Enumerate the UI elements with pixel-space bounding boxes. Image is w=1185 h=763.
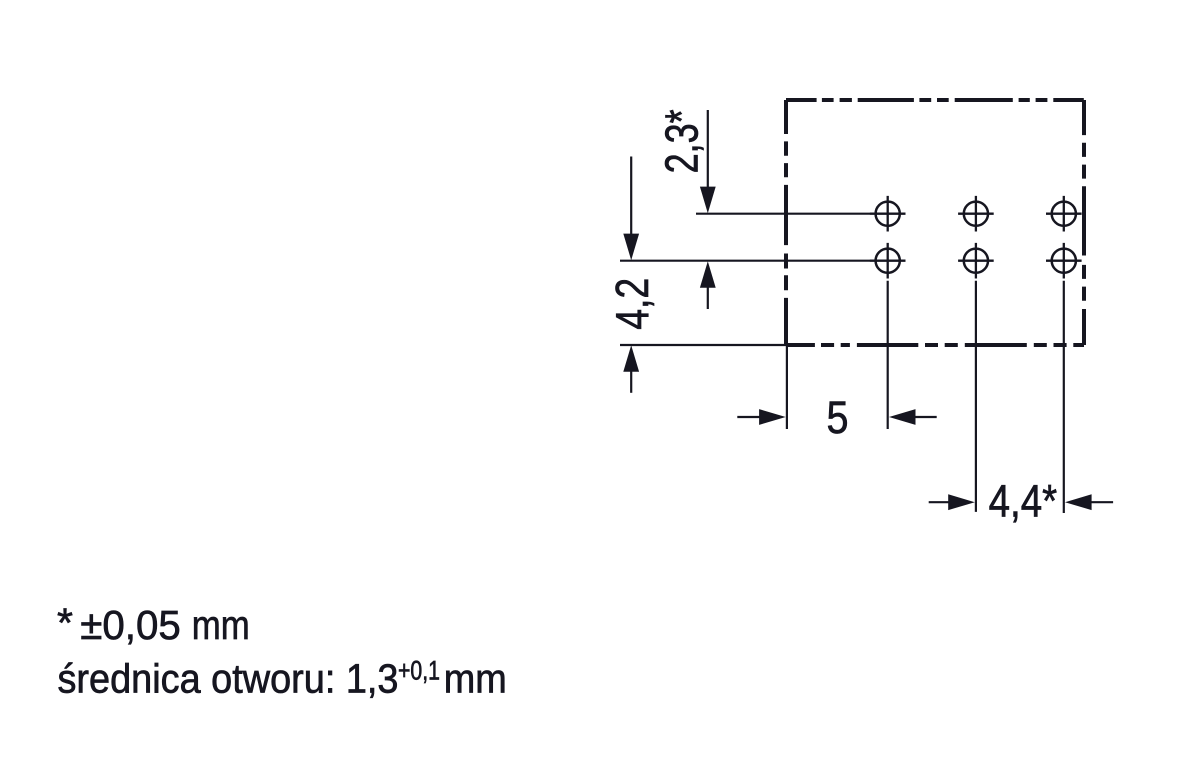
- arrowhead 5 pointing left at col1: [889, 409, 916, 425]
- centerline hole col3 downward: [1063, 281, 1065, 513]
- centerline hole col2 downward: [975, 281, 977, 512]
- housing outline right edge (phantom line): [1082, 100, 1086, 345]
- hole H5 crosshair: [958, 243, 994, 279]
- dimension 2,3* lower line with up arrow: [707, 287, 709, 309]
- extension line housing left edge downward: [786, 346, 788, 429]
- arrowhead 4,4* pointing left at col3: [1065, 494, 1092, 510]
- housing outline bottom edge (phantom line): [786, 343, 1084, 347]
- svg-text:mm: mm: [192, 602, 250, 648]
- extension line row 1 (hole row 1 centerline to the left): [696, 213, 870, 215]
- hole H6 row2 col3 circle: [1052, 249, 1076, 273]
- dimension 4,4* right tail: [1091, 501, 1114, 503]
- extension line row 2 (hole row 2 centerline to the left): [620, 260, 870, 262]
- arrowhead 4,2 pointing up at housing bottom: [623, 345, 639, 372]
- dimension 2,3* upper line with down arrow: [707, 110, 709, 188]
- arrowhead 2,3* pointing up at row2: [700, 261, 716, 288]
- hole H4 crosshair: [870, 243, 906, 279]
- dimension 4,2 lower line with up arrow: [630, 371, 632, 393]
- hole H1 crosshair: [870, 196, 906, 232]
- hole H1 row1 col1 circle: [876, 202, 900, 226]
- hole H6 crosshair: [1046, 243, 1082, 279]
- hole H3 row1 col3 circle: [1052, 202, 1076, 226]
- svg-text:±0,05: ±0,05: [80, 602, 181, 648]
- housing outline top edge (phantom line): [786, 98, 1084, 102]
- hole H4 row2 col1 circle: [876, 249, 900, 273]
- svg-text:średnica otworu: 1,3: średnica otworu: 1,3: [58, 656, 399, 702]
- arrowhead 5 pointing right at housing left: [759, 409, 786, 425]
- hole H2 row1 col2 circle: [964, 202, 988, 226]
- dimension 5 right tail: [915, 416, 937, 418]
- arrowhead 4,4* pointing right at col2: [948, 494, 975, 510]
- extension line housing bottom (to the left): [620, 344, 789, 346]
- dimension 4,4* left tail: [929, 501, 951, 503]
- svg-text:2,3*: 2,3*: [656, 109, 708, 173]
- hole H5 row2 col2 circle: [964, 249, 988, 273]
- arrowhead 4,2 pointing down at row2: [623, 234, 639, 261]
- svg-text:4,4*: 4,4*: [989, 476, 1058, 527]
- centerline hole col1 downward: [887, 281, 889, 429]
- svg-text:4,2: 4,2: [606, 278, 658, 330]
- dimension 5 left tail: [737, 416, 760, 418]
- hole H3 crosshair: [1046, 196, 1082, 232]
- dimension 4,2 upper line with down arrow: [630, 157, 632, 235]
- housing outline left edge (phantom line): [784, 100, 788, 345]
- svg-text:5: 5: [827, 392, 849, 443]
- arrowhead 2,3* pointing down at row1: [700, 187, 716, 214]
- svg-text:mm: mm: [444, 656, 507, 702]
- svg-text:*: *: [57, 600, 73, 646]
- svg-text:+0,1: +0,1: [398, 656, 440, 686]
- hole H2 crosshair: [958, 196, 994, 232]
